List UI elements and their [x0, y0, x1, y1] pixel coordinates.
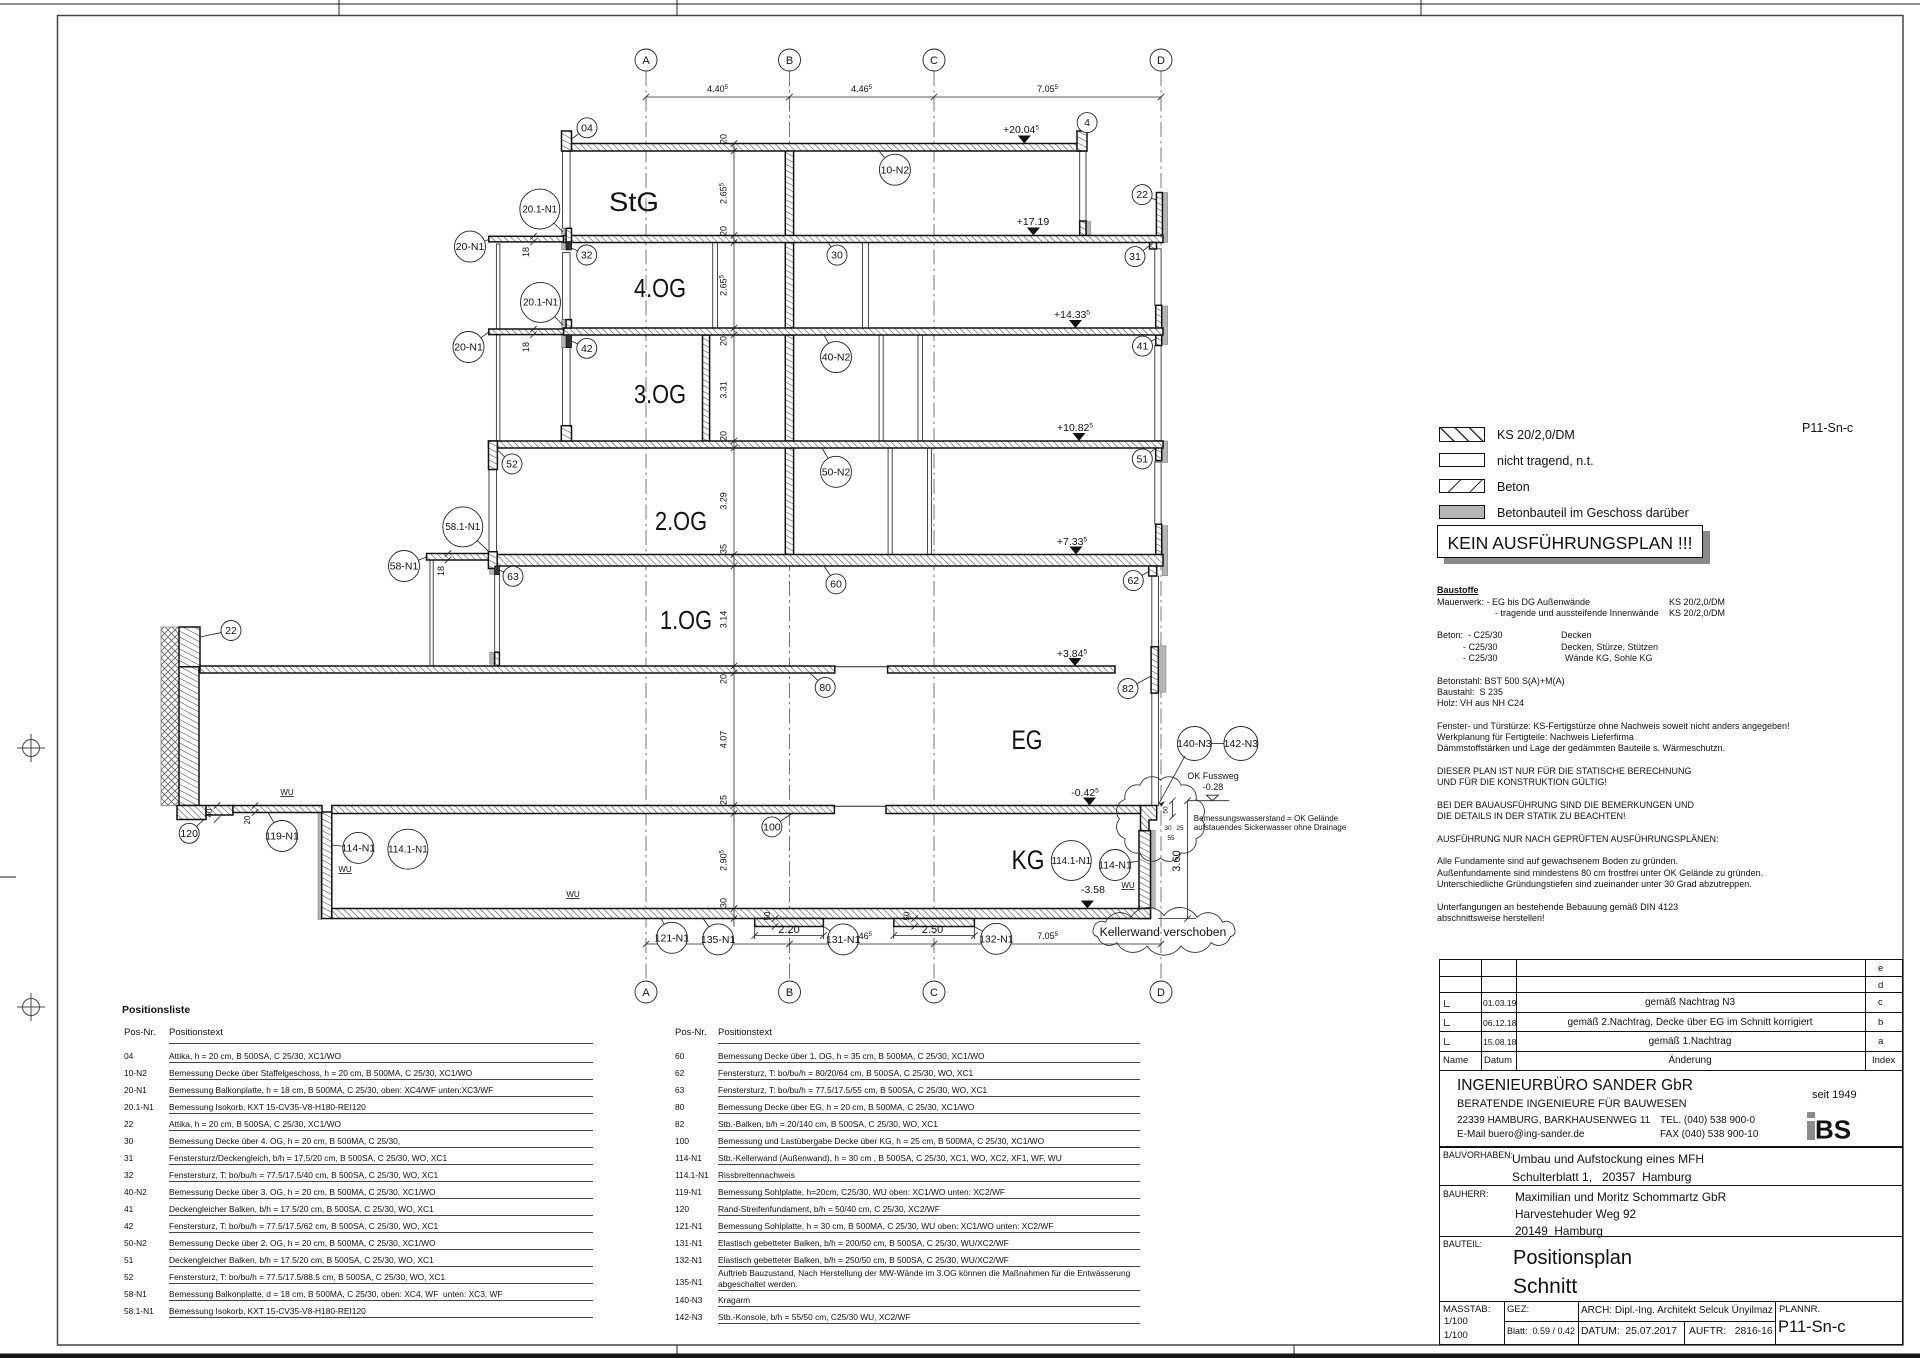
svg-text:4.07: 4.07: [719, 731, 729, 749]
svg-text:4: 4: [1084, 117, 1090, 129]
svg-text:WU: WU: [280, 788, 294, 797]
StG right wall base block: [1080, 221, 1086, 236]
pos 50-N2 Decke ü. 2.OG: [822, 448, 828, 458]
slab +7.33 (60): [489, 555, 1163, 567]
svg-text:B: B: [786, 987, 793, 999]
registration cross bottom: [17, 993, 45, 1021]
svg-text:-0.28: -0.28: [1203, 782, 1224, 792]
svg-text:50-N2: 50-N2: [822, 466, 851, 478]
slab -0.42 segment 1 (100): [332, 806, 835, 814]
cloud around console detail: [1117, 777, 1205, 862]
pos 82 Stb.-Balken: [1137, 676, 1151, 684]
pos 52 Fenstersturz: [497, 450, 504, 457]
page top scan edge line: [0, 3, 1920, 5]
pos 20.1-N1 Isokorb 4.OG: [555, 317, 563, 325]
svg-text:50: 50: [903, 911, 912, 920]
KG left wall 114-N1: [322, 812, 332, 919]
sturz 52 block: [489, 441, 498, 470]
top fold tick 2: [676, 0, 678, 16]
sturz 31: [1150, 243, 1157, 250]
sturz 41 below +14.33: [1156, 335, 1162, 346]
svg-text:82: 82: [1122, 683, 1134, 695]
svg-text:20: 20: [719, 431, 729, 441]
svg-text:58.1-N1: 58.1-N1: [445, 522, 480, 533]
legend swatch Betonbauteil grau: [1439, 505, 1485, 520]
pos 80 Decke ü. EG: [810, 673, 818, 681]
dim 50 step 131-N1: [772, 915, 778, 921]
axis A top circle: [635, 49, 657, 71]
pos 121-N1 Sohlplatte: [661, 919, 664, 925]
svg-text:-0.425: -0.425: [1071, 787, 1099, 799]
svg-text:20.1-N1: 20.1-N1: [523, 298, 558, 309]
svg-text:KG: KG: [1012, 845, 1045, 875]
pos 20.1-N1 Isokorb StG: [554, 223, 563, 232]
svg-text:41: 41: [1137, 341, 1149, 353]
plan number top right: [1802, 421, 1853, 435]
EG left wall: [179, 667, 199, 806]
svg-text:40-N2: 40-N2: [822, 352, 851, 364]
svg-text:D: D: [1157, 987, 1165, 999]
pos 131-N1 Balken: [824, 927, 830, 931]
svg-text:135-N1: 135-N1: [701, 934, 736, 946]
bottom dimension chain 4.40/4.46/7.05: [646, 943, 1161, 945]
console 142-N3 (Kragarm 140-N3): [1141, 806, 1157, 831]
svg-text:18: 18: [436, 566, 446, 576]
svg-text:2.OG: 2.OG: [655, 506, 707, 536]
slab -0.42 gap top line: [834, 805, 886, 807]
KG right wall 114-N1: [1139, 831, 1151, 919]
svg-text:4.405: 4.405: [707, 84, 729, 94]
elast. gebetteter Balken 131-N1: [755, 919, 824, 927]
pos 41 Balken: [1151, 338, 1157, 341]
iBS logo: [1807, 1112, 1869, 1140]
svg-text:7.055: 7.055: [1037, 84, 1059, 94]
svg-text:30: 30: [1164, 825, 1172, 832]
slab +3.84 segment 2: [888, 666, 1115, 673]
svg-text:60: 60: [830, 578, 842, 590]
svg-text:32: 32: [581, 250, 593, 262]
pos 51 Balken: [1150, 448, 1156, 453]
railing below 4.OG balcony: [496, 335, 500, 441]
small marks in name column: [1444, 1000, 1450, 1007]
dim 18 4.OG balcony: [530, 326, 536, 332]
Rand-Streifenfundament 120: [177, 806, 206, 820]
svg-text:A: A: [642, 987, 650, 999]
svg-text:20-N1: 20-N1: [454, 342, 483, 354]
svg-text:31: 31: [1129, 251, 1141, 263]
svg-text:142-N3: 142-N3: [1224, 738, 1259, 750]
svg-text:100: 100: [763, 821, 781, 833]
vertical dimension chain: [733, 144, 735, 927]
svg-text:4.OG: 4.OG: [634, 273, 686, 303]
svg-text:2.655: 2.655: [719, 274, 729, 296]
1.OG right wall (n.t.): [1152, 576, 1159, 647]
svg-text:131-N1: 131-N1: [826, 934, 861, 946]
svg-text:04: 04: [581, 122, 593, 134]
axis B top circle: [779, 49, 801, 71]
svg-text:2.50: 2.50: [922, 924, 943, 936]
svg-text:20: 20: [719, 134, 729, 144]
pos 20-N1 Balkonplatte 4.OG: [481, 332, 489, 338]
EG right wall (n.t.): [1152, 693, 1159, 805]
StG left wall (n.t.): [563, 151, 571, 229]
pos 20-N1 Balkonplatte StG: [485, 240, 489, 242]
svg-text:3.31: 3.31: [719, 381, 729, 399]
dim 2.20: [754, 927, 756, 940]
slab -0.42 segment 2: [886, 806, 1141, 814]
svg-text:C: C: [930, 55, 938, 67]
svg-text:EG: EG: [1012, 725, 1043, 755]
roof slab +20.04 (10-N2): [564, 144, 1087, 152]
svg-text:114-N1: 114-N1: [1098, 860, 1132, 872]
railing below StG balcony: [496, 244, 500, 329]
gray bar +10.82 right: [1162, 441, 1167, 463]
svg-text:3.14: 3.14: [719, 611, 729, 629]
slab +14.33 (40-N2): [564, 328, 1164, 335]
svg-text:aufstauendes Sickerwasser ohne: aufstauendes Sickerwasser ohne Drainage: [1194, 823, 1347, 832]
pos 4 Attika: [1081, 130, 1083, 132]
svg-text:7.055: 7.055: [1037, 931, 1059, 941]
2.OG right wall (n.t.): [1155, 462, 1161, 524]
gray strip isokorb StG: [562, 228, 567, 250]
pos 58.1-N1 Isokorb: [477, 541, 489, 552]
svg-text:140-N3: 140-N3: [1177, 738, 1212, 750]
slab +17.19 (30): [564, 236, 1164, 243]
svg-text:WU: WU: [338, 865, 352, 874]
svg-text:2.905: 2.905: [719, 849, 729, 871]
4.OG partition 2: [863, 243, 869, 329]
isokorb 20.1-N1 block StG: [566, 228, 571, 242]
3.OG partition 1: [879, 335, 883, 441]
Sohlplatte 119-N1: [233, 806, 322, 813]
gray strip KG right wall: [1152, 831, 1155, 909]
svg-text:20: 20: [243, 815, 252, 824]
pos 132-N1 Balken: [975, 927, 983, 931]
revision table lines: [1439, 976, 1903, 977]
svg-text:D: D: [1157, 55, 1165, 67]
elast. gebetteter Balken 132-N1: [894, 919, 975, 927]
cloud Kellerwand verschoben: [1093, 907, 1235, 955]
2.OG partition 1: [888, 448, 892, 555]
svg-text:+10.825: +10.825: [1057, 422, 1093, 434]
axis D line: [1160, 71, 1162, 981]
pos 10-N2 Decke ü. StG: [879, 151, 885, 158]
svg-text:+7.335: +7.335: [1057, 536, 1088, 548]
svg-text:25: 25: [1176, 825, 1184, 832]
gray bar +14.33 right: [1162, 306, 1167, 345]
svg-text:58-N1: 58-N1: [390, 561, 419, 573]
gray bar 1.OG left wall top: [490, 561, 495, 574]
top dimension chain 4.40/4.46/7.05: [646, 96, 1161, 98]
dim 3.60 vertical: [1187, 801, 1189, 919]
pos 140-N3 Kragarm: [1177, 727, 1212, 761]
svg-text:25: 25: [719, 795, 729, 805]
left edge mark: [0, 876, 16, 878]
svg-text:Kellerwand verschoben: Kellerwand verschoben: [1100, 925, 1227, 939]
svg-text:20.1-N1: 20.1-N1: [522, 204, 557, 215]
pos 114-N1 Kellerwand left: [332, 845, 343, 846]
pos 31 Sturz: [1143, 244, 1152, 251]
dim 2.50: [893, 927, 895, 940]
svg-text:10-N2: 10-N2: [881, 164, 910, 176]
svg-text:30: 30: [719, 898, 729, 908]
pos 63 Fenstersturz: [499, 570, 504, 572]
balcony plate 20-N1 (4.OG): [489, 329, 564, 335]
svg-text:18: 18: [521, 342, 531, 352]
attika 22 left (EG roof): [179, 627, 200, 667]
railing below 2.OG balcony (58-N1): [430, 560, 433, 666]
axis A bottom circle: [635, 981, 657, 1003]
svg-text:+14.335: +14.335: [1054, 309, 1090, 321]
BAUTEIL: [1443, 1239, 1482, 1249]
svg-text:StG: StG: [609, 187, 659, 217]
svg-text:Bemessungswasserstand = OK Gel: Bemessungswasserstand = OK Gelände: [1194, 814, 1339, 823]
svg-text:WU: WU: [1121, 881, 1135, 890]
svg-text:119-N1: 119-N1: [265, 831, 299, 843]
revision rows content: [1878, 963, 1883, 974]
pos 119-N1 Sohlplatte: [268, 813, 274, 823]
pos 114.1-N1 right: [1051, 841, 1091, 881]
axis C line: [933, 71, 935, 981]
4.OG partition 1: [713, 243, 718, 329]
pos 58-N1 Balkonplatte: [418, 557, 426, 560]
gray bar at StG right wall base: [1087, 221, 1091, 235]
legend swatch Beton: [1439, 479, 1485, 494]
gray bar 1.OG left wall base: [490, 652, 494, 664]
balcony plate 20-N1 (StG): [489, 236, 564, 242]
Stb.-Balken 82: [1151, 647, 1158, 693]
svg-text:22: 22: [225, 625, 237, 637]
gray bar 82 beam: [1160, 646, 1166, 692]
svg-text:20: 20: [719, 674, 729, 684]
svg-text:20: 20: [719, 336, 729, 346]
pos 62 Fenstersturz: [1142, 571, 1150, 576]
sturz 63: [495, 566, 500, 575]
connector 140-N3 to 142-N3: [1211, 743, 1224, 745]
pos 114.1-N1 left: [388, 829, 428, 869]
foundation step: [206, 806, 233, 816]
axis C bottom circle: [923, 981, 945, 1003]
console mini dims 50/30/25/55: [1172, 801, 1174, 817]
isokorb 20.1-N1 block 4.OG: [566, 320, 571, 328]
svg-text:+17.19: +17.19: [1017, 216, 1050, 228]
slab +10.82 (50-N2): [489, 441, 1164, 448]
bottom row: [1504, 1301, 1505, 1346]
svg-text:18: 18: [521, 247, 531, 257]
bottom fold tick 2: [1293, 1345, 1295, 1358]
dim 40 foundation: [214, 802, 220, 808]
sturz 32: [566, 242, 571, 250]
svg-text:2.655: 2.655: [719, 182, 729, 204]
svg-text:52: 52: [506, 458, 518, 470]
pos 60 Decke ü. 1.OG: [824, 566, 830, 576]
svg-text:20: 20: [719, 226, 729, 236]
axis A line: [645, 71, 647, 981]
svg-text:62: 62: [1127, 575, 1139, 587]
3.OG partition 2: [918, 335, 922, 441]
block at +10.82 right (51): [1156, 441, 1162, 461]
axis B line: [789, 71, 791, 981]
svg-text:C: C: [930, 987, 938, 999]
gray bar +7.33 right: [1162, 526, 1167, 576]
svg-text:2.20: 2.20: [778, 924, 799, 936]
svg-text:OK Fussweg: OK Fussweg: [1187, 771, 1239, 781]
leader 140-N3 to console: [1159, 756, 1185, 804]
legend swatch KS: [1439, 427, 1485, 442]
BAUHERR: [1443, 1189, 1488, 1199]
gray strip isokorb 4.OG: [562, 320, 567, 348]
svg-text:+20.045: +20.045: [1003, 124, 1039, 136]
svg-text:120: 120: [180, 828, 198, 840]
pos 40-N2 Decke ü. 3.OG: [824, 335, 829, 343]
pos 30 Decke ü. 4.OG: [828, 243, 831, 247]
pos 120 Fundament: [197, 820, 204, 827]
svg-text:50: 50: [763, 911, 772, 920]
BAUVORHABEN: [1443, 1150, 1513, 1160]
axis D bottom circle: [1150, 981, 1172, 1003]
svg-text:114-N1: 114-N1: [341, 842, 375, 854]
pos 100 Decke ü. KG: [780, 814, 792, 822]
wall block above +14.33 right: [1156, 305, 1162, 328]
svg-text:3.OG: 3.OG: [634, 379, 686, 409]
dim 18 58-N1 balcony: [445, 550, 451, 556]
axis D top circle: [1150, 49, 1172, 71]
4.OG interior wall (axis B): [785, 243, 793, 329]
sturz 42: [566, 335, 571, 348]
pos 22 Attika right: [1151, 198, 1156, 200]
pos 32 Fenstersturz: [571, 248, 577, 251]
svg-text:22: 22: [1136, 189, 1148, 201]
axis B bottom circle: [779, 981, 801, 1003]
slab +3.84 gap top line: [835, 666, 888, 668]
pos 114-N1 Kellerwand right: [1130, 861, 1139, 862]
block 3.OG left wall base: [561, 426, 571, 441]
svg-text:B: B: [786, 55, 793, 67]
svg-text:132-N1: 132-N1: [979, 933, 1014, 945]
svg-text:51: 51: [1136, 453, 1148, 465]
top fold tick 1: [338, 0, 340, 16]
3.OG interior wall 2: [703, 335, 710, 441]
2.OG left wall (n.t.): [489, 470, 497, 552]
legend swatch nicht tragend: [1439, 453, 1485, 468]
svg-text:35: 35: [719, 544, 729, 554]
svg-text:80: 80: [819, 682, 831, 694]
pos 04 Attika: [572, 134, 579, 139]
isokorb 58.1-N1 block: [488, 552, 497, 569]
balcony plate 58-N1: [427, 554, 490, 561]
pos 22 Attika left: [200, 633, 221, 637]
pos 142-N3 Konsole: [1224, 727, 1259, 761]
KG Sohlplatte 121-N1: [332, 909, 1151, 919]
svg-text:55: 55: [1167, 835, 1175, 842]
svg-text:1.OG: 1.OG: [660, 605, 712, 635]
svg-text:50: 50: [1163, 806, 1170, 814]
dim 20 sohlplatte 119-N1: [252, 802, 258, 808]
dim 18 StG balcony: [530, 233, 536, 239]
svg-text:20-N1: 20-N1: [456, 241, 485, 253]
svg-text:42: 42: [581, 343, 593, 355]
StG right wall (n.t.): [1080, 151, 1086, 222]
svg-text:121-N1: 121-N1: [655, 932, 690, 944]
dim 50 step 132-N1: [911, 915, 917, 921]
svg-text:63: 63: [507, 571, 519, 583]
3.OG left wall (n.t.): [563, 348, 571, 426]
4.OG left wall (n.t.): [563, 253, 571, 320]
StG interior wall (axis B): [785, 151, 793, 236]
slab +3.84 segment 1 (80): [200, 666, 835, 673]
svg-text:114.1-N1: 114.1-N1: [388, 845, 428, 856]
gray strip KG left wall outside: [318, 812, 322, 920]
3.OG right wall (n.t.): [1155, 346, 1161, 442]
3.OG interior wall (axis B): [785, 335, 793, 441]
svg-text:40: 40: [205, 808, 214, 817]
sturz 62: [1149, 566, 1157, 576]
section lines: [1439, 1146, 1903, 1148]
svg-text:WU: WU: [566, 890, 580, 899]
registration cross top: [17, 734, 45, 762]
svg-text:BS: BS: [1815, 1115, 1851, 1141]
svg-text:114.1-N1: 114.1-N1: [1052, 856, 1092, 867]
wall block above +7.33 right: [1156, 524, 1162, 554]
2.OG interior wall (axis B): [785, 448, 793, 555]
attika 04 left: [562, 131, 572, 151]
axis C top circle: [923, 49, 945, 71]
KEIN AUSFUEHRUNGSPLAN box: [1444, 531, 1710, 564]
company section: [1457, 1077, 1693, 1095]
1.OG left wall (n.t.): [495, 574, 500, 652]
insulation layer EG left facade: [161, 627, 179, 806]
block 1.OG left wall base: [495, 652, 500, 666]
svg-text:A: A: [642, 55, 650, 67]
attika 4 right: [1077, 131, 1087, 151]
svg-text:30: 30: [831, 250, 843, 262]
svg-text:4.465: 4.465: [851, 84, 873, 94]
svg-text:-3.58: -3.58: [1081, 884, 1105, 896]
2.OG partition 2: [928, 448, 932, 555]
4.OG right wall (n.t.): [1155, 249, 1161, 305]
attika 22 (right, +17.19 roof): [1156, 193, 1162, 242]
top fold tick 3: [1420, 0, 1422, 16]
bottom fold tick 1: [676, 1345, 678, 1358]
svg-text:3.29: 3.29: [719, 492, 729, 510]
pos 42 Fenstersturz: [572, 341, 578, 344]
pos 135-N1 Auftrieb: [703, 919, 709, 927]
gray bar attika 22: [1162, 193, 1167, 243]
bottom scan black strip: [0, 1354, 1920, 1358]
